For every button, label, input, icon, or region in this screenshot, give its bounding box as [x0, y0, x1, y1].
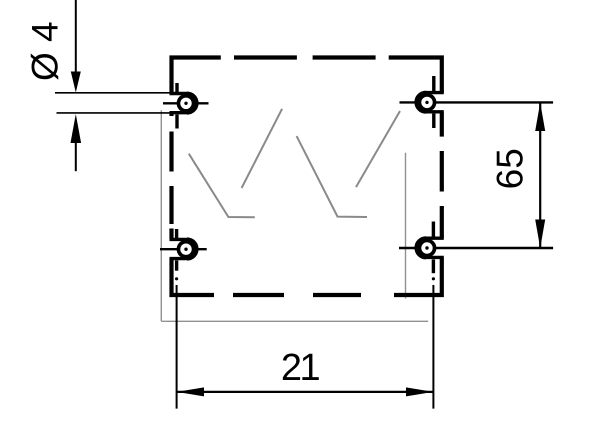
svg-text:Ø 4: Ø 4: [25, 21, 66, 81]
svg-text:65: 65: [490, 148, 531, 189]
svg-text:21: 21: [281, 347, 320, 389]
